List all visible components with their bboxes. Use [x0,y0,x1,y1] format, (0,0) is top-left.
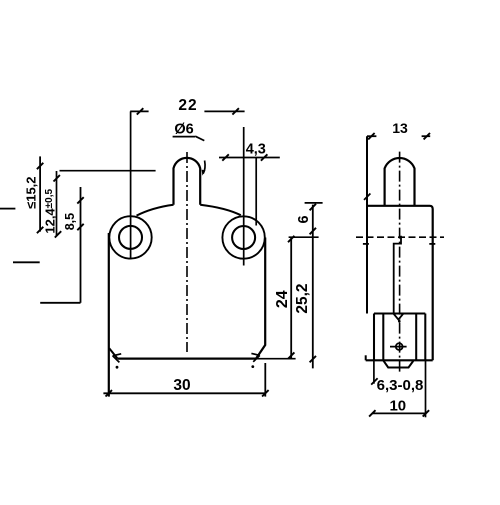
dimension 6 and 25,2: shared dimension line [312,205,314,369]
front view: left ear outer circle [109,216,151,258]
side view: hidden hole axis line [356,236,444,238]
svg-text:10: 10 [389,398,406,415]
left reference line lower [40,302,80,304]
front view: right corner arrow [251,353,259,361]
dimension 30: tick right [262,390,269,396]
dimension 22: dimension line left segment [130,110,148,112]
dimension 12,4: tick top [54,175,60,181]
side view: terminal inner left [382,314,384,361]
front view: right ear outer circle [222,216,264,258]
front view: body left edge [108,233,110,397]
side view: left edge upper [366,136,368,313]
dimension 13: tick left [368,133,374,139]
front view: bottom edge [118,358,256,360]
dimension 15,2: dimension line [39,156,41,231]
dimension 12,4: tick bottom [55,231,61,237]
side view: blade tip [383,360,413,367]
side view: bottom shoulder line [366,359,433,361]
front view: right mounting hole [232,226,255,249]
side view: right notch dash [429,243,435,245]
dimension 4,3: tick left [222,154,229,160]
svg-text:Ø6: Ø6 [174,122,193,138]
front view: bottom corner leader line [122,358,296,360]
front view: left corner arrow [113,354,122,363]
dimension 4,3: extension x258 [255,158,257,226]
label diameter 6: leader [195,136,204,140]
side view: outline top and right [367,206,433,360]
dimension 30: dimension line [103,392,265,394]
svg-text:24: 24 [274,290,291,308]
svg-text:8,5: 8,5 [63,213,77,230]
side view: notch dot [398,320,401,323]
side view: plunger [385,158,415,206]
side view: terminal inner right [415,314,417,361]
front view: body top curve right [200,205,241,216]
svg-text:13: 13 [392,120,408,136]
dimension 8,5: tick top [77,197,83,203]
side view: terminal hole circle [396,343,403,350]
svg-text:25,2: 25,2 [294,284,311,314]
svg-text:30: 30 [173,377,190,394]
side view: inner stem line [394,236,401,314]
side view: left notch dash [363,243,369,245]
front view: vertical centerline [186,152,188,352]
left margin stray line [0,208,15,210]
dimension 22: tick left [137,108,144,114]
dimension 8,5: dimension line [80,187,82,303]
dimension 10: tick left [369,410,375,416]
front view: right corner dot [251,365,254,368]
dimension 22: dimension line right segment [204,110,244,112]
dimension 15,2: tick bottom [37,227,43,233]
dimension 13: dimension line right segment [422,135,431,137]
front view: plunger [174,158,201,205]
dimension 30: tick left [106,390,113,396]
dimension 10: dimension line [372,412,426,414]
dimension 22: extension left through hole [130,111,132,259]
dimension 22: tick right [232,108,239,114]
svg-text:22: 22 [178,97,197,114]
side view: left edge lower stub [365,355,367,360]
dimension 4,3: tick right [261,154,268,160]
dimension 6: top extension [305,202,323,204]
svg-text:6: 6 [296,215,312,223]
label diameter 6: arrow hook [203,161,205,174]
dimension 6: tick bottom [310,228,316,235]
dimension 6,3-0,8: left extension [373,360,375,383]
dimension 12,4: dimension line [56,171,58,236]
dimension 12,4: extension line [60,170,156,172]
svg-text:6,3-0,8: 6,3-0,8 [377,377,424,394]
svg-text:≤15,2: ≤15,2 [24,176,39,208]
dimension 4,3: dimension line [219,157,280,159]
dimension 6: tick top [310,204,316,211]
front view: bottom-right chamfer and right edge [256,238,265,359]
side view: terminal outer right [424,314,426,361]
dimension 22: extension right through hole [243,127,245,266]
svg-text:12,4±0,5: 12,4±0,5 [42,189,57,234]
dimension 13: dimension line left segment [367,135,376,137]
side view: step line [374,312,425,314]
svg-text:4,3: 4,3 [246,142,266,158]
side view: terminal outer left [373,314,375,361]
dimension 24: tick top [288,236,294,242]
dimension 8,5: tick mid [77,224,83,230]
dimension 6,3-0,8: right extension [425,360,427,417]
label diameter 6: underline [173,136,195,138]
front view: bottom-left chamfer [109,348,117,358]
front view: left mounting hole [119,226,142,249]
side view: centerline [399,152,401,373]
side view: left edge tick [364,194,370,200]
dimension 15,2: tick top [37,163,43,169]
left reference line upper [13,261,40,263]
side view: terminal hole line [390,346,407,348]
dimension 24: dimension line [290,238,292,359]
front view: body top curve left [137,205,174,216]
dimension 25,2: tick bottom [310,356,316,362]
side view: crimp notch [393,314,403,320]
dimension 6,3-0,8: tick [371,378,377,384]
dimension 6: hole center extension [289,236,319,238]
dimension 24: tick bottom [288,352,294,358]
dimension 30: extension right [264,363,266,397]
front view: left corner dot [116,366,119,369]
label diameter 6: arrowhead [202,170,206,176]
dimension 13: tick right [424,133,430,139]
dimension 10: tick right [423,410,429,416]
